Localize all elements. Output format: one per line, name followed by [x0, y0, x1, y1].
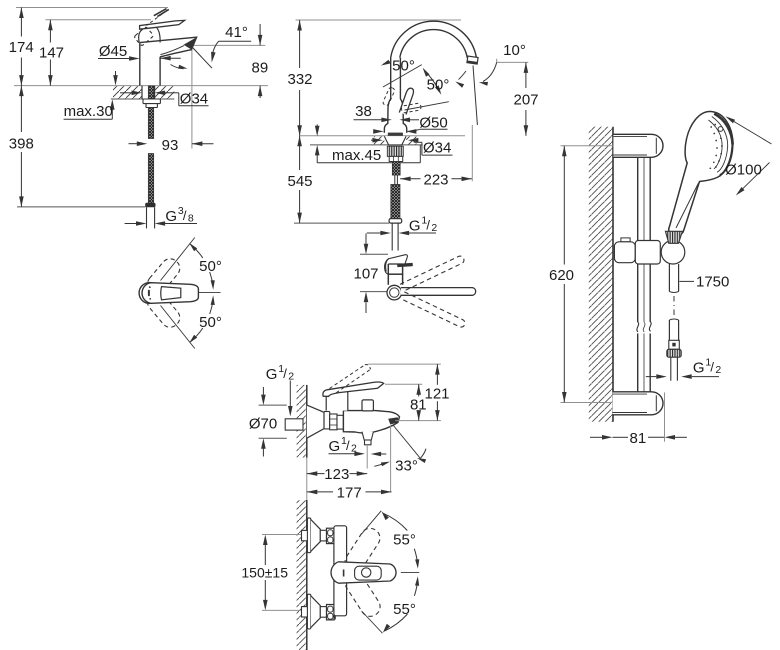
bath mixer body [343, 411, 399, 433]
bottom supply stub [302, 607, 309, 617]
basin shank locknut [143, 99, 160, 108]
bath cartridge cap [326, 391, 348, 411]
front handle circle [362, 568, 371, 577]
handle top view body [142, 283, 198, 304]
outlet vertical extension (223 ref) [472, 66, 477, 182]
basin tail pipe G3/8 [147, 207, 155, 228]
kitchen lever [399, 88, 413, 114]
label 177 [337, 485, 362, 502]
545 bottom reference line [294, 222, 389, 224]
svg-text:55°: 55° [393, 531, 416, 548]
basin flexible hose lower [148, 154, 153, 204]
bath lever raised dashed [330, 364, 371, 392]
svg-text:55°: 55° [393, 601, 416, 618]
dimension 81 [416, 384, 421, 420]
spout tip extension line (89 ref) [193, 44, 265, 46]
hand shower face rim crescent [714, 114, 732, 145]
svg-text:2: 2 [715, 364, 721, 376]
svg-text:Ø34: Ø34 [423, 140, 451, 157]
kitchen shank hex [389, 156, 403, 161]
kitchen hose end fitting [389, 219, 402, 224]
dimension 332 line [297, 20, 302, 136]
107 top reference line [360, 253, 388, 255]
svg-text:177: 177 [337, 485, 362, 502]
glide holder knob [614, 238, 635, 263]
front handle inner rect [355, 566, 382, 580]
svg-text:50°: 50° [199, 314, 222, 331]
dimension G3/8 arrows [125, 221, 197, 226]
supply stub in wall [285, 419, 303, 430]
label G3/8 [165, 205, 194, 225]
swivel handle grip bar [397, 263, 413, 267]
dimension 10deg arc [479, 62, 497, 85]
svg-text:150±15: 150±15 [241, 564, 288, 580]
kitchen lever alternate right dashed [401, 103, 421, 113]
bath diverter knob [362, 400, 373, 411]
bath 33deg stream line [393, 425, 420, 458]
bath lever-top reference line (81) [385, 383, 422, 385]
swivel handle top view [385, 255, 408, 274]
svg-text:107: 107 [353, 266, 378, 283]
shower rail top foot [613, 134, 663, 157]
dimension 123 [307, 471, 367, 476]
handle centerline right [199, 291, 221, 293]
sink counter bottom line [310, 144, 423, 146]
front handle tick [343, 570, 345, 577]
shower rail center line [643, 157, 645, 391]
dimension G12k arrows [367, 231, 436, 236]
basin mixer lever [140, 20, 185, 29]
sink counter hatch left [374, 136, 385, 144]
handle 50deg ray down [161, 306, 195, 349]
svg-text:2: 2 [288, 371, 294, 383]
dimension 147 line [48, 20, 53, 86]
svg-text:G: G [329, 438, 341, 455]
bath lever [323, 382, 384, 396]
bath 33deg arc [374, 449, 426, 467]
dimension 207 line [524, 62, 529, 135]
label 33deg [395, 457, 418, 474]
kitchen lever alternate left dashed [382, 87, 395, 106]
svg-text:Ø50: Ø50 [419, 114, 447, 131]
label 93 [162, 137, 179, 154]
counter cross-section hatch right [155, 86, 175, 98]
dimension 150 ref bottom [262, 609, 301, 611]
wall hatch (shower) [589, 127, 613, 422]
svg-text:545: 545 [287, 173, 312, 190]
label 89 [252, 59, 269, 76]
svg-text:Ø100: Ø100 [725, 162, 762, 179]
counter bottom line [111, 98, 174, 100]
wall face line continuation [306, 458, 308, 501]
glide holder body [635, 241, 660, 265]
dimension 177 [307, 490, 392, 495]
hand shower handle inner line [676, 183, 699, 228]
dimension 150 line [263, 535, 268, 611]
hand shower silhouette [669, 111, 733, 235]
label 41deg [225, 24, 248, 41]
mixer vertical body front [334, 526, 347, 616]
107 bottom reference line [360, 291, 388, 293]
label D50 [419, 114, 447, 131]
label max45 [332, 147, 381, 164]
wall hatch (bath side view) [297, 385, 307, 458]
swivel spout body top view [388, 264, 402, 285]
dimension 41deg leader [192, 41, 252, 68]
kitchen flexible hose [391, 185, 400, 219]
top union nut [327, 528, 335, 543]
label 1750 [696, 273, 729, 290]
wall face line (shower) [612, 127, 614, 422]
swivel x mark [402, 289, 408, 294]
sink counter hatch right [406, 136, 416, 144]
label 38 [355, 103, 372, 120]
svg-text:207: 207 [513, 91, 538, 108]
svg-text:50°: 50° [427, 77, 450, 94]
label 121 [424, 385, 449, 402]
dimension 1750 leader [680, 280, 695, 282]
handle top view pivot circle [139, 283, 160, 304]
handle 50deg arc [189, 243, 215, 343]
front centerline right [401, 571, 420, 573]
extension line top of lever (174 ref) [16, 7, 168, 9]
label max.30 [64, 103, 113, 120]
basin mixer body [140, 42, 160, 85]
svg-text:332: 332 [287, 71, 312, 88]
shower rail bottom foot [613, 392, 664, 415]
wall face line (bath front view) [306, 500, 308, 650]
dimension 223 line [400, 177, 472, 182]
svg-text:81: 81 [410, 397, 427, 414]
dimension D34k arrows [371, 138, 453, 155]
basin mixer spout [140, 37, 197, 57]
svg-text:Ø70: Ø70 [249, 415, 277, 432]
kitchen faucet neck [391, 58, 401, 99]
extension line arc top (332 ref) [296, 19, 462, 21]
label 398 [9, 135, 34, 152]
svg-text:G: G [266, 366, 278, 383]
svg-text:max.30: max.30 [64, 103, 113, 120]
washbasin counter top line [14, 85, 268, 87]
shower tail pipe [671, 357, 678, 381]
dimension G12 shower arrows [646, 374, 719, 379]
front handle dashed down position [342, 570, 384, 620]
bath union nut [330, 414, 344, 430]
dimension 620 [562, 146, 567, 403]
kitchen flow direction arrow [455, 71, 466, 88]
dimension G12 bath arrows [329, 452, 387, 457]
dimension 207 ref [497, 59, 529, 63]
label 50deg view top [199, 258, 222, 275]
label G12 top [266, 363, 295, 383]
svg-text:Ø34: Ø34 [180, 90, 208, 107]
basin mixer lever neck [139, 28, 160, 43]
shower hose nut knurled [667, 349, 681, 357]
label 55deg top [393, 531, 416, 548]
bottom escutcheon [307, 594, 326, 629]
dimension 545 line [297, 136, 302, 223]
shower hose dash-dot continuation [673, 296, 675, 318]
basin mixer lever motion dashes [147, 11, 167, 26]
dimension D100 leader [725, 116, 771, 195]
swivel joint circle [387, 285, 402, 300]
label G12 shower [693, 357, 722, 377]
hand shower cone fitting [665, 231, 682, 243]
hose end reference line (398 ref) [17, 206, 145, 208]
handle top view inner plate [161, 287, 181, 300]
hand shower pivot detail [718, 127, 723, 132]
620 ref bottom [561, 402, 614, 404]
shower rail tube [638, 157, 651, 391]
shower hose lower [669, 319, 678, 340]
svg-text:50°: 50° [392, 57, 415, 74]
svg-text:147: 147 [39, 45, 64, 62]
kitchen spout arc [391, 21, 477, 58]
swivel spout arm solid [401, 288, 476, 296]
label 81 bath [410, 397, 427, 414]
swivel spout arm dashed up [400, 255, 465, 291]
kitchen faucet base [384, 99, 407, 133]
svg-text:10°: 10° [503, 42, 526, 59]
svg-text:max.45: max.45 [332, 147, 381, 164]
front handle solid [331, 562, 396, 583]
label 223 [423, 171, 448, 188]
label 107 [353, 266, 378, 283]
kitchen threaded rod [392, 162, 400, 176]
svg-text:G: G [693, 360, 705, 377]
svg-text:/: / [710, 360, 714, 375]
label D70 [249, 415, 277, 432]
label 10deg [503, 42, 526, 59]
svg-text:G: G [165, 208, 177, 225]
bath upper reference line (121) [368, 363, 441, 365]
wall hatch (bath front view) [297, 500, 307, 650]
svg-text:1750: 1750 [696, 273, 729, 290]
basin mixer lever alternate position dashed [134, 26, 154, 46]
svg-text:38: 38 [355, 103, 372, 120]
dimension 93 line [129, 141, 214, 146]
handle top view dashed position up [144, 255, 183, 297]
svg-text:41°: 41° [225, 24, 248, 41]
bath outlet extension line [366, 445, 368, 469]
bath spout aerator [388, 417, 398, 424]
svg-text:/: / [283, 366, 287, 381]
dimension D45 leader [98, 56, 181, 61]
dimension 398 line [19, 86, 24, 207]
label 50deg-2 [427, 77, 450, 94]
swivel spout arm dashed down [401, 292, 466, 328]
svg-text:G: G [409, 217, 421, 234]
front 55deg arc [382, 511, 420, 633]
basin mixer flow direction arrow [171, 65, 188, 69]
svg-text:2: 2 [431, 222, 437, 234]
kitchen tail pipe [392, 223, 398, 250]
glide holder cup [661, 240, 685, 264]
bottom union nut [327, 605, 335, 620]
counter cross-section hatch left [113, 86, 142, 98]
wall face line (bath side view) [306, 385, 308, 458]
shower hose upper [669, 264, 678, 293]
label 123 [324, 466, 349, 483]
label D45 [99, 43, 127, 60]
label D100 [725, 162, 762, 179]
label D34 [180, 90, 208, 107]
dimension 107 [364, 234, 369, 314]
dimension G12 top leader [288, 381, 293, 417]
kitchen 50deg arc lower-right [423, 68, 442, 95]
kitchen hose neck [395, 175, 398, 185]
svg-text:174: 174 [9, 39, 34, 56]
front 55deg ray down [362, 611, 383, 633]
label 50deg view bottom [199, 314, 222, 331]
label 332 [287, 71, 312, 88]
label 147 [39, 45, 64, 62]
hand shower face plate lines [709, 114, 733, 175]
bath escutcheon cone [307, 405, 330, 438]
svg-text:89: 89 [252, 59, 269, 76]
label G12k [409, 214, 438, 234]
dimension max.30 arrows [64, 71, 118, 119]
label 50deg-1 [392, 57, 415, 74]
hand shower spray dots [709, 124, 722, 169]
spout tip vertical extension (93 ref) [191, 46, 193, 149]
svg-text:121: 121 [424, 385, 449, 402]
front 55deg ray up [362, 511, 382, 534]
dimension D70 [259, 387, 287, 457]
extension line lever blade (147 ref) [45, 19, 151, 21]
620 ref top [561, 145, 614, 147]
bath 33deg vertical reference [390, 425, 392, 492]
handle 50deg ray up [161, 238, 195, 281]
dimension 121 [435, 364, 440, 421]
label 81 shower [630, 430, 647, 447]
label 150 [241, 564, 288, 580]
label G12 bath [329, 435, 358, 455]
dimension 38 leader [354, 118, 420, 123]
label 174 [9, 39, 34, 56]
dimension D34 arrows [120, 91, 209, 106]
label 620 [549, 267, 574, 284]
svg-text:Ø45: Ø45 [99, 43, 127, 60]
dimension 81 shower [590, 435, 687, 440]
label 55deg bottom [393, 601, 416, 618]
front handle dashed up position [341, 525, 383, 575]
svg-text:223: 223 [423, 171, 448, 188]
dimension D50 arrows [373, 129, 447, 134]
dimension 150 ref top [262, 534, 301, 536]
svg-text:93: 93 [162, 137, 179, 154]
svg-text:123: 123 [324, 466, 349, 483]
bath outlet under body [362, 432, 373, 445]
label 207 [513, 91, 538, 108]
shower hose joint [669, 340, 680, 349]
svg-text:/: / [426, 217, 430, 232]
kitchen 50deg arc upper-left [381, 60, 391, 66]
svg-text:620: 620 [549, 267, 574, 284]
svg-text:8: 8 [188, 212, 194, 224]
dimension 174 line [19, 8, 24, 86]
top escutcheon [307, 518, 326, 553]
svg-text:398: 398 [9, 135, 34, 152]
kitchen spout outlet aerator [467, 56, 478, 64]
kitchen threaded shank knurl [387, 146, 403, 156]
basin mixer raised lever tip [154, 9, 169, 17]
svg-text:2: 2 [351, 443, 357, 455]
handle top view marks [148, 286, 151, 299]
label D34k [423, 140, 451, 157]
label 545 [287, 173, 312, 190]
kitchen base gasket [388, 133, 403, 136]
sink counter top line [300, 135, 465, 137]
svg-text:81: 81 [630, 430, 647, 447]
81 right extension line [664, 393, 666, 442]
svg-text:33°: 33° [395, 457, 418, 474]
basin hose end fitting [145, 203, 155, 207]
basin flexible hose upper [148, 86, 153, 138]
kitchen 50deg ray A [383, 65, 422, 87]
kitchen 50deg ray B [405, 102, 449, 110]
top supply stub [302, 530, 309, 540]
shower rail break symbol [637, 322, 651, 333]
handle top view dashed position down [144, 289, 183, 331]
svg-text:/: / [346, 438, 350, 453]
kitchen escutcheon below counter [384, 136, 406, 145]
svg-text:/: / [183, 208, 187, 223]
bath outlet reference line [395, 420, 441, 422]
dimension max45 [315, 124, 420, 162]
svg-text:50°: 50° [199, 258, 222, 275]
basin mounting shank [142, 86, 155, 99]
dimension 89 line [258, 24, 263, 98]
